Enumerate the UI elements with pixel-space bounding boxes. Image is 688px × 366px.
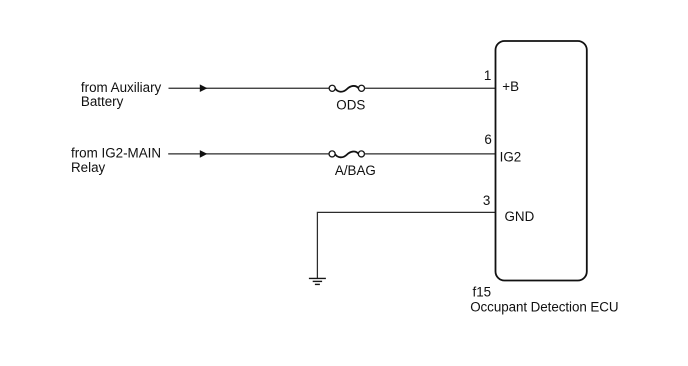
- wire: GND run to ground: [317, 212, 495, 278]
- svg-text:3: 3: [483, 193, 490, 208]
- node: from IG2-MAIN Relay label: [71, 145, 161, 174]
- ECU box: Occupant Detection ECU: [496, 41, 587, 281]
- svg-text:f15: f15: [473, 285, 492, 300]
- wire: IG2 feed right segment to ECU: [364, 153, 495, 155]
- wire: +B feed arrowhead: [200, 84, 208, 92]
- fuse ODS: [329, 85, 365, 112]
- wire: IG2 feed left segment: [168, 153, 329, 155]
- svg-text:IG2: IG2: [500, 149, 522, 164]
- svg-text:Occupant Detection ECU: Occupant Detection ECU: [470, 300, 618, 315]
- svg-text:1: 1: [484, 68, 491, 83]
- wire: IG2 feed arrowhead: [200, 150, 208, 158]
- fuse A/BAG: [329, 151, 376, 178]
- wire: +B feed right segment to ECU: [364, 87, 495, 89]
- svg-text:GND: GND: [505, 209, 535, 224]
- svg-text:A/BAG: A/BAG: [335, 163, 376, 178]
- svg-text:from Auxiliary: from Auxiliary: [81, 80, 162, 95]
- svg-text:Battery: Battery: [81, 94, 124, 109]
- wire: +B feed left segment: [169, 87, 330, 89]
- svg-text:+B: +B: [502, 79, 519, 94]
- svg-text:ODS: ODS: [336, 98, 365, 113]
- svg-text:6: 6: [484, 132, 491, 147]
- svg-text:Relay: Relay: [71, 160, 106, 175]
- ground: [309, 278, 326, 284]
- node: from Auxiliary Battery label: [81, 80, 162, 109]
- svg-text:from IG2-MAIN: from IG2-MAIN: [71, 145, 161, 160]
